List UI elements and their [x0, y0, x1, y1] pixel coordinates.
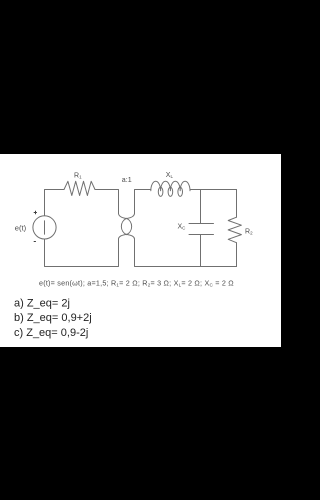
inductor XL humps — [151, 181, 190, 191]
capacitor XC plates — [189, 224, 214, 235]
voltage source e(t) — [33, 216, 56, 239]
wire left branch top — [45, 190, 65, 216]
transformer T1 top funnel — [119, 214, 128, 219]
wire secondary bottom — [135, 239, 237, 267]
svg-text:XL: XL — [166, 172, 174, 179]
capacitor XC branch top — [200, 190, 202, 224]
transformer T1 lens — [121, 218, 131, 234]
svg-text:R1: R1 — [74, 173, 82, 180]
label - — [34, 241, 36, 243]
svg-text:c) Z_eq= 0,9-2j: c) Z_eq= 0,9-2j — [14, 327, 88, 339]
svg-text:a) Z_eq= 2j: a) Z_eq= 2j — [14, 298, 70, 310]
svg-text:e(t): e(t) — [15, 223, 27, 232]
capacitor XC branch bottom — [200, 235, 202, 267]
wire R2 to bottom — [236, 243, 238, 267]
resistor R2 zigzag — [228, 217, 241, 243]
wire coil to R2 corner — [190, 189, 237, 191]
svg-text:e(t)= sen(ωt); a=1,5; R1= 2 Ω;: e(t)= sen(ωt); a=1,5; R1= 2 Ω; R2= 3 Ω; … — [39, 278, 234, 287]
transformer T1 bottom funnel — [119, 234, 128, 239]
wire secondary top — [135, 190, 151, 214]
wire R1 to transformer primary corner — [95, 190, 119, 214]
resistor R1 — [64, 181, 95, 195]
svg-text:b) Z_eq= 0,9+2j: b) Z_eq= 0,9+2j — [14, 312, 92, 324]
svg-text:R2: R2 — [245, 228, 253, 235]
white content panel — [0, 154, 281, 347]
svg-text:XC: XC — [178, 223, 187, 230]
inductor XL loops — [158, 187, 163, 196]
source inner bar — [44, 221, 46, 234]
label + — [34, 211, 37, 215]
wire left branch bottom — [45, 239, 119, 267]
resistor R2 branch — [236, 190, 238, 218]
svg-text:a:1: a:1 — [122, 176, 132, 184]
